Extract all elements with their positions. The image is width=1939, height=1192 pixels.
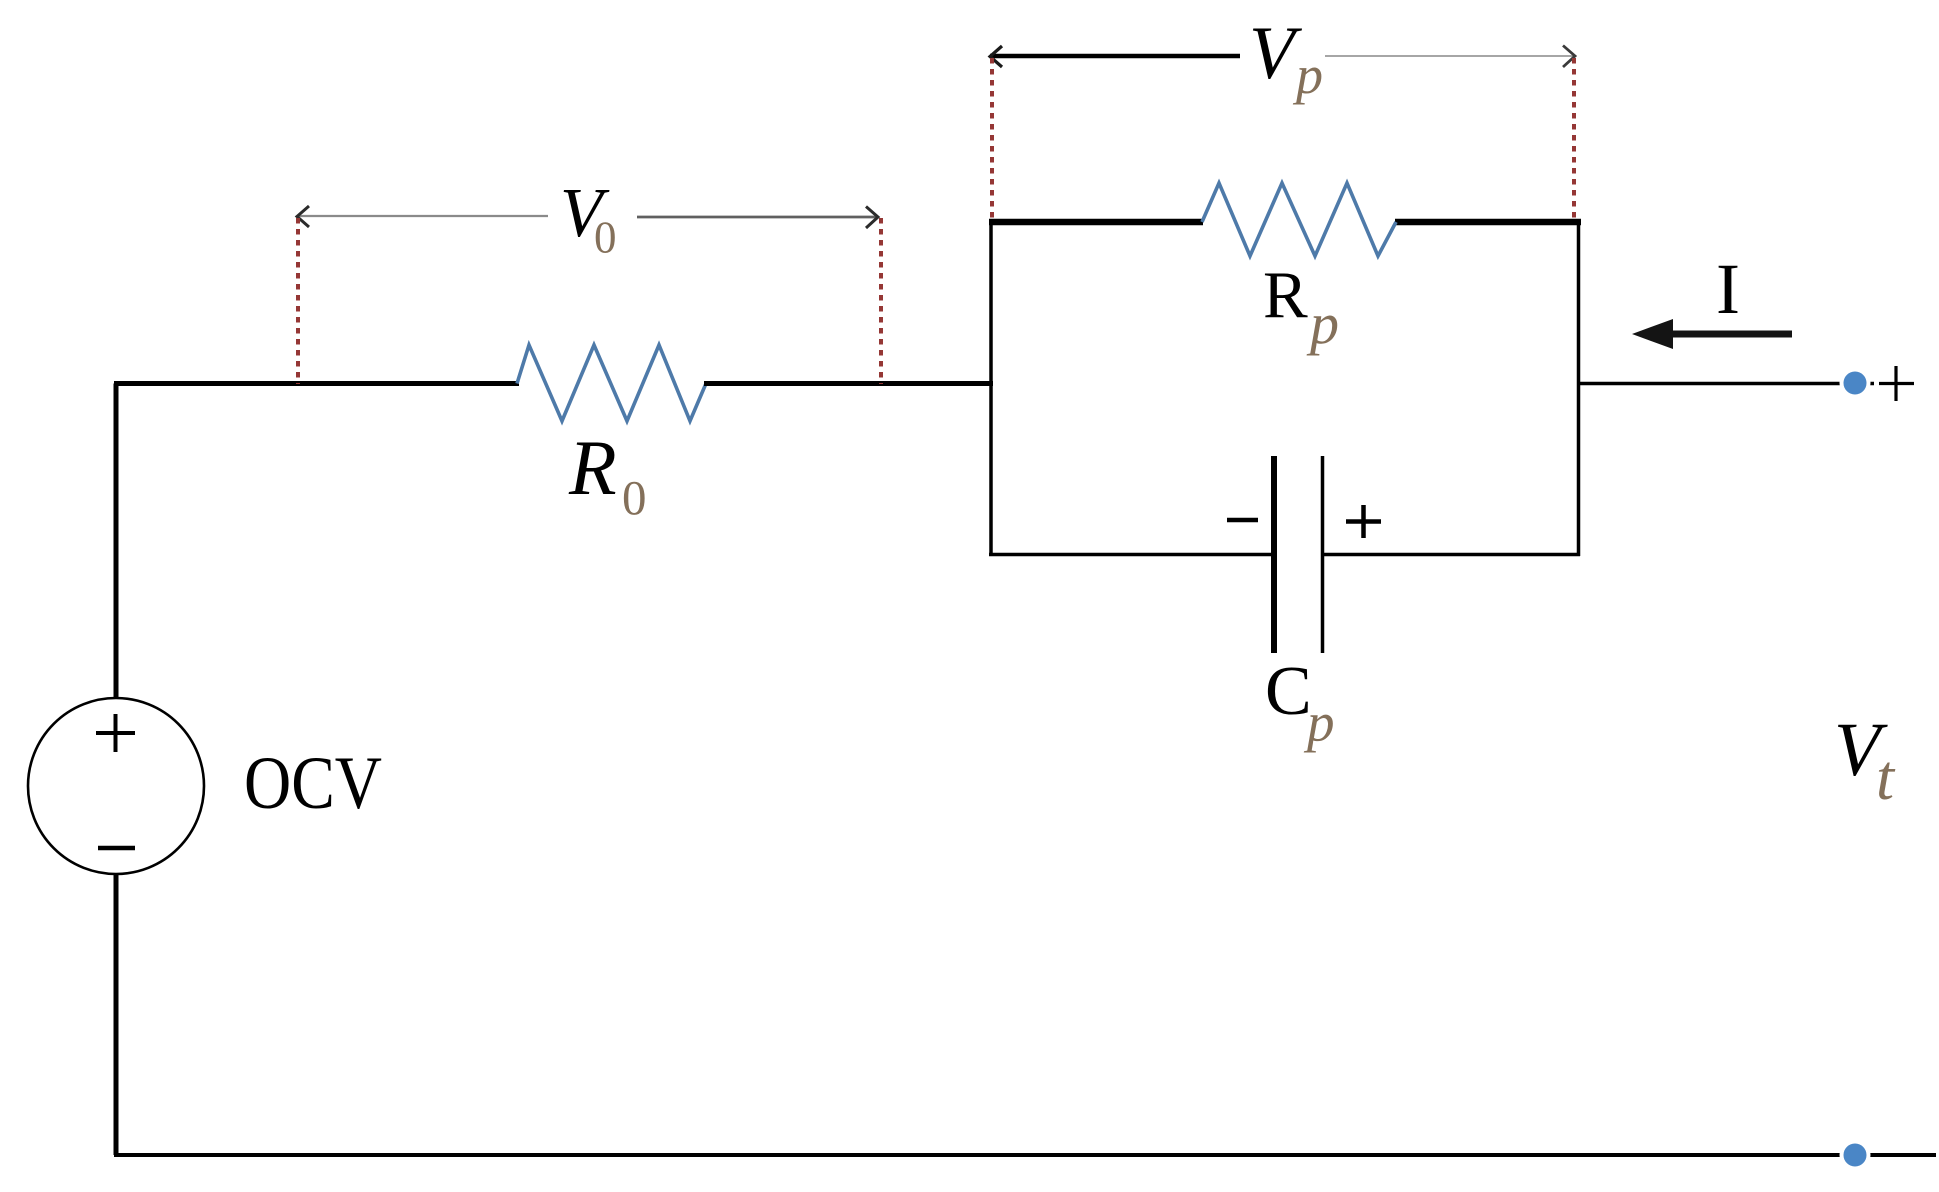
svg-text:I: I: [1716, 249, 1740, 329]
svg-text:p: p: [1306, 291, 1339, 356]
svg-text:t: t: [1876, 742, 1896, 814]
svg-text:p: p: [1292, 45, 1323, 105]
svg-text:R: R: [568, 424, 617, 511]
svg-text:OCV: OCV: [244, 742, 382, 825]
svg-text:p: p: [1303, 692, 1335, 753]
svg-text:0: 0: [622, 470, 647, 525]
svg-text:R: R: [1263, 258, 1308, 332]
svg-text:0: 0: [594, 213, 617, 263]
svg-text:C: C: [1265, 653, 1312, 730]
